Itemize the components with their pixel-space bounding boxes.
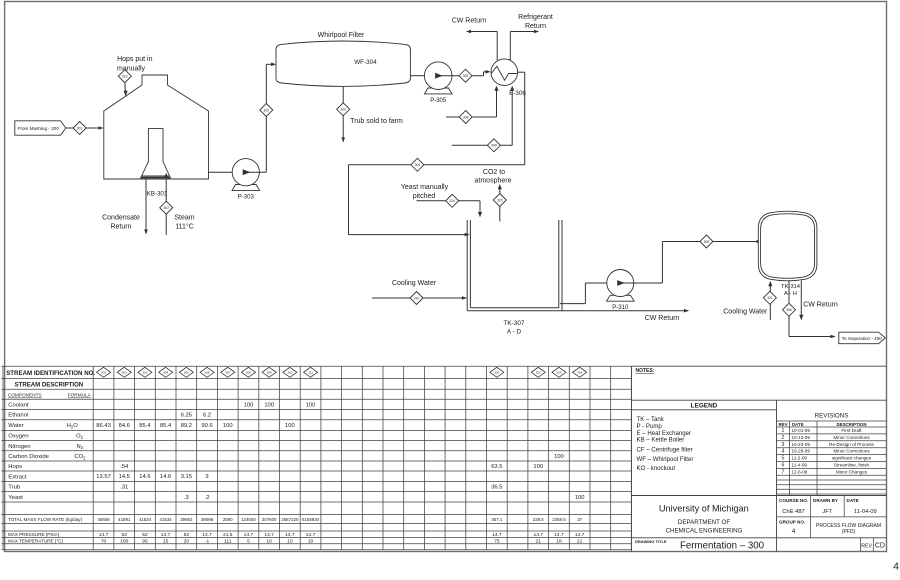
svg-text:307: 307 xyxy=(163,206,169,210)
stream diamond 303 xyxy=(459,69,472,82)
svg-text:2: 2 xyxy=(782,435,785,441)
svg-text:14.5: 14.5 xyxy=(119,474,130,480)
svg-text:A - H: A - H xyxy=(784,291,797,297)
svg-text:306: 306 xyxy=(786,308,792,312)
svg-text:ChE 487: ChE 487 xyxy=(782,509,805,515)
svg-text:14.7: 14.7 xyxy=(161,532,171,538)
svg-text:14.7: 14.7 xyxy=(244,532,254,538)
svg-text:Coolant: Coolant xyxy=(8,402,29,408)
svg-text:11-2-09: 11-2-09 xyxy=(792,456,808,461)
wire P-303 up to whirlpool filter xyxy=(246,63,276,173)
university cell xyxy=(631,496,886,535)
group no / pfd cells xyxy=(779,519,881,535)
svg-text:Yeast: Yeast xyxy=(8,495,23,501)
svg-text:NOTES:: NOTES: xyxy=(636,368,655,374)
condensate return line xyxy=(102,179,148,235)
svg-text:MAX PRESSURE (PSIA): MAX PRESSURE (PSIA) xyxy=(8,532,60,537)
svg-text:309: 309 xyxy=(491,144,497,148)
svg-text:95: 95 xyxy=(142,538,148,544)
svg-text:CW Return: CW Return xyxy=(645,315,680,322)
wire P-310 to TK-314 xyxy=(620,240,762,283)
svg-text:Refrigerant: Refrigerant xyxy=(518,14,553,21)
cooling water to TK-307 stream 310 xyxy=(372,280,467,300)
svg-text:2580: 2580 xyxy=(223,517,233,522)
svg-text:36.5: 36.5 xyxy=(491,485,502,491)
stream diamond 305 xyxy=(700,235,713,248)
svg-text:322: 322 xyxy=(122,74,128,78)
svg-text:TK-307: TK-307 xyxy=(504,320,525,327)
svg-text:308: 308 xyxy=(463,115,469,119)
svg-text:18: 18 xyxy=(556,538,562,544)
svg-text:37: 37 xyxy=(577,517,582,522)
svg-text:10: 10 xyxy=(308,538,314,544)
svg-text:6.2: 6.2 xyxy=(203,413,211,419)
svg-text:323: 323 xyxy=(497,198,503,202)
svg-text:DRAWING TITLE: DRAWING TITLE xyxy=(635,539,667,544)
svg-text:N2: N2 xyxy=(77,444,84,450)
svg-text:LEGEND: LEGEND xyxy=(691,402,718,409)
svg-text:E-306: E-306 xyxy=(509,90,526,97)
svg-text:Whirlpool Filter: Whirlpool Filter xyxy=(318,32,365,39)
svg-text:Hops: Hops xyxy=(8,464,22,470)
svg-text:P - Pump: P - Pump xyxy=(637,423,663,430)
svg-text:21.5: 21.5 xyxy=(223,532,233,538)
revisions table xyxy=(777,413,887,496)
wire TK-314 to separation xyxy=(789,280,836,338)
svg-text:2368.5: 2368.5 xyxy=(552,517,566,522)
svg-text:Minor Corrections: Minor Corrections xyxy=(833,449,870,454)
svg-text:pitched: pitched xyxy=(413,193,436,200)
CW supply to E-306 stream 308 xyxy=(446,86,499,117)
svg-text:324: 324 xyxy=(449,199,455,203)
svg-text:.3: .3 xyxy=(184,495,189,501)
svg-text:CF – Centrifuge filter: CF – Centrifuge filter xyxy=(637,446,693,453)
svg-text:KB-301: KB-301 xyxy=(147,190,168,197)
svg-text:228.6: 228.6 xyxy=(533,517,545,522)
svg-text:TK-314: TK-314 xyxy=(781,284,801,290)
stream diamond 310 xyxy=(410,292,423,305)
svg-text:100: 100 xyxy=(575,495,585,501)
svg-text:306: 306 xyxy=(205,370,210,374)
svg-text:111: 111 xyxy=(224,538,232,544)
stream table header text xyxy=(6,370,95,398)
svg-text:85.4: 85.4 xyxy=(139,423,151,429)
course/drawn/date cells xyxy=(777,496,887,538)
page number xyxy=(893,561,899,573)
stream diamond 307 steam xyxy=(160,201,173,214)
svg-text:70: 70 xyxy=(101,538,107,544)
svg-text:KO - knockout: KO - knockout xyxy=(637,465,676,472)
svg-text:4: 4 xyxy=(893,561,899,573)
svg-text:.54: .54 xyxy=(120,464,129,470)
svg-text:Nitrogen: Nitrogen xyxy=(8,444,30,450)
wire TK-307 to P-310 xyxy=(560,283,607,304)
svg-text:14.7: 14.7 xyxy=(575,532,585,538)
svg-text:.2: .2 xyxy=(205,495,210,501)
svg-text:Yeast manually: Yeast manually xyxy=(401,184,449,191)
svg-text:6155920: 6155920 xyxy=(302,517,320,522)
svg-text:305: 305 xyxy=(704,240,710,244)
stream diamond 320 trub xyxy=(337,103,350,116)
svg-text:Minor Corrections: Minor Corrections xyxy=(833,435,870,440)
svg-text:301: 301 xyxy=(101,370,106,374)
svg-text:FORMULA: FORMULA xyxy=(68,393,92,398)
svg-text:Trub: Trub xyxy=(8,485,21,491)
svg-text:21: 21 xyxy=(577,538,583,544)
svg-text:REVISIONS: REVISIONS xyxy=(815,413,849,420)
svg-text:DATE: DATE xyxy=(847,498,859,503)
svg-text:301: 301 xyxy=(77,126,83,130)
svg-text:75: 75 xyxy=(494,538,500,544)
svg-text:REV: REV xyxy=(778,422,787,427)
trub outlet to farm xyxy=(341,87,403,143)
stream diamond 309 xyxy=(487,139,500,152)
svg-text:304: 304 xyxy=(163,370,168,374)
svg-text:Trub sold to farm: Trub sold to farm xyxy=(350,118,403,125)
svg-text:310: 310 xyxy=(414,296,420,300)
svg-text:14.7: 14.7 xyxy=(99,532,109,538)
svg-text:10-01-09: 10-01-09 xyxy=(792,428,811,433)
svg-text:100: 100 xyxy=(285,423,295,429)
svg-text:11-4-09: 11-4-09 xyxy=(792,462,808,467)
svg-text:Carbon Dioxide: Carbon Dioxide xyxy=(8,454,49,460)
svg-text:63.5: 63.5 xyxy=(491,464,502,470)
svg-text:100: 100 xyxy=(554,454,564,460)
svg-text:302: 302 xyxy=(122,370,127,374)
svg-text:University of Michigan: University of Michigan xyxy=(659,503,749,513)
svg-text:307: 307 xyxy=(225,370,230,374)
svg-text:1: 1 xyxy=(782,428,785,434)
svg-text:10: 10 xyxy=(287,538,293,544)
CO2 vent stream 323 xyxy=(475,169,512,222)
svg-text:P-305: P-305 xyxy=(430,98,447,104)
svg-text:.31: .31 xyxy=(120,485,128,491)
legend entries xyxy=(637,416,694,472)
svg-text:311: 311 xyxy=(308,370,313,374)
wire kettle to P-303 xyxy=(209,171,233,173)
svg-text:100: 100 xyxy=(306,402,316,408)
svg-text:14.6: 14.6 xyxy=(139,474,150,480)
svg-text:3: 3 xyxy=(782,442,785,448)
off-page connector: From Mashing - 200 xyxy=(15,121,66,135)
svg-text:100: 100 xyxy=(533,464,543,470)
off-page connector: To Separation - 400 xyxy=(839,332,886,344)
svg-text:100: 100 xyxy=(223,423,233,429)
svg-text:308: 308 xyxy=(246,370,251,374)
svg-text:Minor Changes: Minor Changes xyxy=(836,469,868,474)
stream diamond 308 xyxy=(459,111,472,124)
CW return from TK-314 xyxy=(799,280,838,320)
svg-text:303: 303 xyxy=(463,74,469,78)
svg-text:52: 52 xyxy=(122,532,128,538)
title block frame xyxy=(631,366,886,551)
svg-text:(PFD): (PFD) xyxy=(842,529,856,535)
svg-text:100: 100 xyxy=(120,538,128,544)
svg-text:21: 21 xyxy=(536,538,542,544)
svg-text:CHEMICAL ENGINEERING: CHEMICAL ENGINEERING xyxy=(666,527,743,534)
svg-text:Ethanol: Ethanol xyxy=(8,413,28,419)
svg-text:311: 311 xyxy=(767,296,772,300)
svg-text:atmosphere: atmosphere xyxy=(475,178,512,185)
svg-text:10-13-09: 10-13-09 xyxy=(792,435,811,440)
svg-text:Condensate: Condensate xyxy=(102,214,140,221)
svg-text:14.7: 14.7 xyxy=(533,532,543,538)
svg-text:14.7: 14.7 xyxy=(554,532,564,538)
svg-text:DEPARTMENT OF: DEPARTMENT OF xyxy=(678,519,730,526)
svg-text:11-04-09: 11-04-09 xyxy=(854,509,877,515)
svg-text:H2O: H2O xyxy=(67,423,79,429)
svg-text:14.7: 14.7 xyxy=(306,532,316,538)
svg-text:304: 304 xyxy=(415,163,421,167)
pump P-310 xyxy=(607,270,635,311)
stream diamond 311 xyxy=(763,291,776,304)
svg-text:310: 310 xyxy=(287,370,292,374)
svg-text:39692: 39692 xyxy=(180,517,193,522)
svg-text:41534: 41534 xyxy=(160,517,173,522)
svg-text:REV: REV xyxy=(861,543,872,549)
svg-text:20: 20 xyxy=(184,538,190,544)
svg-text:JFT: JFT xyxy=(822,509,832,515)
stream table data values xyxy=(96,402,584,544)
svg-text:Steam: Steam xyxy=(174,214,194,221)
svg-text:Fermentation – 300: Fermentation – 300 xyxy=(680,540,765,551)
kettle boiler KB-301 xyxy=(104,75,209,197)
svg-text:14.6: 14.6 xyxy=(160,474,171,480)
svg-text:Extract: Extract xyxy=(8,474,27,480)
svg-text:39096: 39096 xyxy=(201,517,214,522)
svg-text:To Separation - 400: To Separation - 400 xyxy=(842,336,883,341)
svg-text:86.43: 86.43 xyxy=(96,423,111,429)
svg-text:Return: Return xyxy=(110,223,131,230)
yeast manual feed stream 324 xyxy=(401,184,482,217)
stream diamond 306 xyxy=(783,303,796,316)
svg-text:Cooling Water: Cooling Water xyxy=(392,280,437,287)
svg-text:STREAM DESCRIPTION: STREAM DESCRIPTION xyxy=(15,382,84,388)
heat exchanger E-306 xyxy=(491,59,526,97)
svg-text:323: 323 xyxy=(556,370,561,374)
svg-text:14.7: 14.7 xyxy=(202,532,212,538)
svg-text:COURSE NO.: COURSE NO. xyxy=(779,498,808,503)
svg-text:3: 3 xyxy=(205,474,208,480)
stream diamond 304 xyxy=(411,158,424,171)
CW return from E-306 xyxy=(452,18,498,61)
svg-text:Re-Design of Process: Re-Design of Process xyxy=(829,442,874,447)
whirlpool filter WF-304 xyxy=(276,32,410,86)
CW return from TK-307 jacket xyxy=(467,309,689,322)
svg-text:85.4: 85.4 xyxy=(160,423,172,429)
svg-text:-1: -1 xyxy=(205,538,210,544)
svg-text:MAX TEMPERATURE (°C): MAX TEMPERATURE (°C) xyxy=(8,538,63,543)
svg-text:WF-304: WF-304 xyxy=(354,59,377,66)
svg-text:207600: 207600 xyxy=(262,517,277,522)
stream table grid xyxy=(2,366,632,550)
stream diamond 301 xyxy=(73,122,86,135)
svg-text:322: 322 xyxy=(536,370,541,374)
stream diamond 322 hops xyxy=(118,70,131,83)
svg-text:First Draft: First Draft xyxy=(841,428,862,433)
fermenter tank TK-307 A-D xyxy=(467,220,562,336)
svg-text:Streamline, finish: Streamline, finish xyxy=(834,462,870,467)
svg-text:320: 320 xyxy=(340,108,346,112)
svg-text:KB – Kettle Boiler: KB – Kettle Boiler xyxy=(637,437,685,444)
svg-text:TOTAL MASS FLOW RATE (kg/day): TOTAL MASS FLOW RATE (kg/day) xyxy=(8,517,83,522)
svg-text:manually: manually xyxy=(117,66,146,73)
svg-text:320: 320 xyxy=(494,370,499,374)
wire P-305 to E-306 xyxy=(438,70,491,76)
svg-text:5: 5 xyxy=(782,456,785,462)
svg-text:CW Return: CW Return xyxy=(803,302,838,309)
svg-text:100: 100 xyxy=(244,402,254,408)
wire hops into kettle roof xyxy=(124,83,128,96)
svg-text:P-303: P-303 xyxy=(238,194,255,200)
svg-text:Cooling Water: Cooling Water xyxy=(723,308,768,315)
refrigerant return from E-306 xyxy=(510,14,553,60)
svg-text:O2: O2 xyxy=(76,434,84,440)
wire WF-304 to P-305 xyxy=(410,75,424,77)
svg-text:89.2: 89.2 xyxy=(181,423,192,429)
svg-text:DRAWN BY: DRAWN BY xyxy=(813,498,838,503)
svg-text:DATE: DATE xyxy=(792,422,804,427)
stream table row labels xyxy=(8,402,86,543)
svg-text:14.7: 14.7 xyxy=(285,532,295,538)
svg-text:14.7: 14.7 xyxy=(264,532,274,538)
svg-text:WF – Whirlpool Filter: WF – Whirlpool Filter xyxy=(637,456,694,463)
cooling water to TK-314 stream 311 xyxy=(723,281,772,320)
svg-text:52: 52 xyxy=(184,532,190,538)
svg-text:305: 305 xyxy=(184,370,189,374)
svg-text:7: 7 xyxy=(782,469,785,475)
wire mashing feed to kettle xyxy=(66,126,104,130)
refrigerant supply to E-306 stream 309 xyxy=(452,86,515,146)
svg-text:303: 303 xyxy=(142,370,147,374)
svg-text:GROUP NO.: GROUP NO. xyxy=(779,519,805,524)
svg-text:6.25: 6.25 xyxy=(181,413,192,419)
svg-text:40606: 40606 xyxy=(97,517,110,522)
svg-text:A - D: A - D xyxy=(507,329,522,336)
svg-text:302: 302 xyxy=(264,108,270,112)
svg-text:13.57: 13.57 xyxy=(96,474,111,480)
svg-text:CW Return: CW Return xyxy=(452,18,487,25)
svg-text:84.6: 84.6 xyxy=(119,423,130,429)
pump P-305 xyxy=(424,62,452,104)
svg-text:P-310: P-310 xyxy=(612,305,629,311)
svg-text:CO2 to: CO2 to xyxy=(483,169,505,176)
svg-text:4: 4 xyxy=(782,449,785,455)
legend box xyxy=(631,400,886,551)
svg-text:From Mashing - 200: From Mashing - 200 xyxy=(18,126,60,131)
svg-text:14.7: 14.7 xyxy=(492,532,502,538)
svg-text:324: 324 xyxy=(577,370,582,374)
svg-text:COMPONENTS: COMPONENTS xyxy=(8,393,42,398)
svg-text:41534: 41534 xyxy=(139,517,152,522)
wire E-306 to fermenter TK-307 xyxy=(349,72,525,236)
svg-text:124600: 124600 xyxy=(241,517,256,522)
svg-text:Hops put in: Hops put in xyxy=(117,56,153,63)
stream diamond 323 CO2 xyxy=(493,194,506,207)
svg-text:Water: Water xyxy=(8,423,24,429)
svg-text:10-23-09: 10-23-09 xyxy=(792,442,811,447)
svg-text:111°C: 111°C xyxy=(175,222,194,230)
hops manual feed label xyxy=(117,56,153,72)
svg-text:309: 309 xyxy=(267,370,272,374)
drawing title row xyxy=(631,538,886,552)
stream diamond 324 yeast xyxy=(446,194,459,207)
svg-text:Oxygen: Oxygen xyxy=(8,434,28,440)
svg-text:100: 100 xyxy=(264,402,274,408)
svg-text:significant changes: significant changes xyxy=(832,456,872,461)
steam feed line 307 xyxy=(164,173,195,235)
svg-text:52: 52 xyxy=(142,532,148,538)
stream diamond 302 xyxy=(260,104,273,117)
pump P-303 xyxy=(232,159,260,201)
svg-text:4: 4 xyxy=(792,528,796,535)
svg-text:10: 10 xyxy=(266,538,272,544)
svg-text:357.1: 357.1 xyxy=(491,517,503,522)
svg-text:10-29-09: 10-29-09 xyxy=(792,449,811,454)
svg-text:2567220: 2567220 xyxy=(281,517,299,522)
svg-text:41891: 41891 xyxy=(118,517,131,522)
svg-text:Return: Return xyxy=(525,23,546,30)
svg-text:STREAM IDENTIFICATION NO.: STREAM IDENTIFICATION NO. xyxy=(6,370,95,377)
svg-text:DESCRIPTION: DESCRIPTION xyxy=(836,422,866,427)
stream table header diamonds xyxy=(97,367,587,377)
svg-text:6: 6 xyxy=(782,462,785,468)
svg-text:15: 15 xyxy=(163,538,169,544)
svg-text:90.6: 90.6 xyxy=(201,423,212,429)
svg-text:3.15: 3.15 xyxy=(181,474,192,480)
svg-text:CD: CD xyxy=(875,543,885,550)
svg-text:CO2: CO2 xyxy=(74,454,86,460)
notes area xyxy=(636,368,655,374)
maturation tank TK-314 A-H xyxy=(758,211,817,297)
svg-text:12-6-09: 12-6-09 xyxy=(792,469,808,474)
svg-text:5: 5 xyxy=(247,538,250,544)
